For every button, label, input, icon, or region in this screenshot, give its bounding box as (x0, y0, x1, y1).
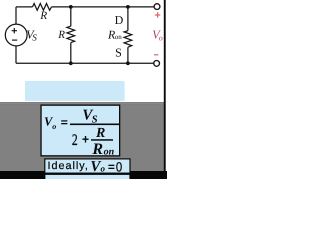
output terminal bottom (open circle) (154, 61, 160, 67)
output terminal top (open circle) (154, 4, 160, 10)
svg-text:Ideally,: Ideally, (48, 160, 89, 172)
voltage source VS (circle) (5, 24, 27, 46)
svg-text:o: o (159, 34, 163, 43)
node B junction dot (126, 5, 130, 9)
formula inner fraction bar (91, 139, 113, 141)
svg-text:R: R (95, 126, 105, 141)
wire top: node A to node B (71, 6, 128, 8)
formula main fraction bar (70, 124, 119, 126)
wire: Ron down to bottom rail (127, 47, 129, 63)
source plus sign (12, 28, 17, 33)
bottom rail wire (16, 62, 154, 64)
wire: top-left down to source (15, 7, 17, 24)
junction dot bottom node A' (69, 61, 73, 65)
svg-text:R: R (57, 29, 65, 41)
output minus sign (red) (154, 54, 158, 56)
formula equals sign (61, 120, 67, 121)
svg-text:S: S (92, 115, 98, 126)
svg-text:on: on (104, 146, 115, 157)
blue highlight rectangle (empty) (25, 81, 125, 101)
resistor R1 (horizontal) (33, 4, 52, 11)
svg-text:S: S (115, 46, 122, 60)
source minus sign (12, 39, 17, 41)
resistor Ron (vertical) (124, 31, 132, 48)
black bottom band (0, 171, 167, 179)
grey footer band top edge (groove line) (0, 101, 165, 104)
svg-text:R: R (91, 141, 103, 158)
svg-text:on: on (115, 33, 123, 41)
svg-text:o: o (52, 122, 56, 131)
svg-text:2: 2 (72, 132, 78, 149)
formula denominator plus (82, 139, 88, 140)
ideally equals sign (108, 165, 114, 166)
ideally box (45, 159, 130, 173)
formula box (41, 105, 120, 156)
wire top: R1 to node A (52, 6, 71, 8)
wire: node B down to resistor Ron (127, 7, 129, 31)
wire top: source to resistor R1 (16, 6, 33, 8)
node A junction dot (69, 5, 73, 9)
grey footer band (0, 104, 165, 171)
svg-text:o: o (101, 164, 106, 174)
output plus sign (red) (155, 12, 160, 17)
ideally box bottom border (44, 173, 130, 175)
wire: source down to bottom rail (15, 46, 17, 64)
svg-text:S: S (32, 33, 37, 43)
ideally box lower blue sliver (45, 175, 129, 179)
wire top: node B to output terminal (128, 6, 154, 8)
svg-text:D: D (115, 13, 124, 27)
wire: R2 down to bottom rail (70, 43, 72, 64)
svg-text:R: R (39, 10, 47, 22)
resistor R2 (vertical middle) (67, 26, 75, 42)
junction dot bottom node B' (126, 61, 130, 65)
slide right border line (164, 0, 166, 179)
svg-text:0: 0 (116, 159, 122, 174)
wire: node A down to resistor R2 (70, 7, 72, 26)
